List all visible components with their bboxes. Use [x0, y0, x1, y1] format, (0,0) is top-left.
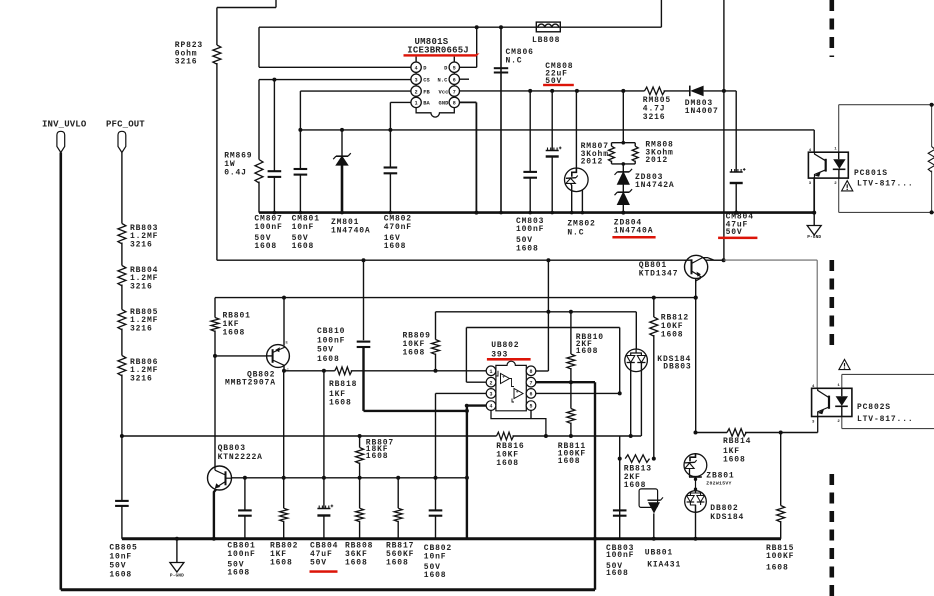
svg-text:1608: 1608 — [386, 559, 409, 568]
svg-text:393: 393 — [491, 350, 508, 359]
svg-text:1608: 1608 — [270, 559, 293, 568]
wire CB802 bottom — [435, 516, 437, 539]
wire opto emitter to bus — [813, 177, 815, 212]
svg-text:3216: 3216 — [130, 325, 153, 334]
transistor QB801 — [685, 255, 708, 278]
svg-text:1608: 1608 — [558, 457, 581, 466]
svg-text:RB818: RB818 — [329, 380, 357, 389]
svg-text:N.C: N.C — [567, 229, 584, 238]
wire QB803 emitter to bus — [214, 490, 216, 539]
svg-text:1N4740A: 1N4740A — [614, 227, 654, 236]
wire divider drop A — [323, 371, 325, 478]
ground P-GND bottom — [176, 539, 178, 563]
wire output heavy line — [536, 381, 595, 383]
svg-text:UB802: UB802 — [491, 341, 519, 350]
svg-text:6: 6 — [453, 77, 456, 83]
inductor LB808 — [536, 22, 560, 32]
wire CB810 branch — [363, 260, 365, 340]
wire GND pin8 to bus — [460, 101, 477, 103]
svg-text:2012: 2012 — [581, 158, 604, 167]
red underline CM804 50V — [718, 237, 757, 240]
wire RB817 top — [397, 478, 399, 508]
capacitor CM806 — [494, 67, 508, 69]
zener ZD803 — [617, 172, 629, 184]
resistor RB810 — [567, 354, 575, 369]
svg-text:P-GND: P-GND — [170, 573, 184, 579]
capacitor CM802 — [384, 166, 398, 168]
wire secondary loop PC802S — [842, 373, 934, 375]
wire QB802 collector — [283, 367, 285, 371]
svg-text:1608: 1608 — [254, 242, 277, 251]
svg-text:100nF: 100nF — [516, 225, 544, 234]
svg-text:3216: 3216 — [130, 241, 153, 250]
svg-text:4: 4 — [415, 65, 418, 71]
svg-text:KDS184: KDS184 — [710, 513, 744, 522]
warning symbol PC801S — [842, 181, 853, 191]
wire feedback line right — [745, 432, 818, 434]
wire PC802S emitter — [817, 417, 819, 433]
resistor RB818 — [335, 367, 352, 375]
svg-text:3216: 3216 — [643, 113, 666, 122]
capacitor CM804 — [730, 171, 743, 173]
svg-text:CS: CS — [423, 77, 430, 83]
resistor RB808 — [356, 508, 364, 521]
wire pin4 heavy drop — [467, 406, 486, 539]
svg-text:FB: FB — [423, 89, 430, 95]
svg-text:N.C: N.C — [437, 77, 448, 83]
svg-text:3216: 3216 — [130, 283, 153, 292]
svg-text:1608: 1608 — [606, 569, 629, 578]
red underline ICE3BR0665J — [404, 54, 477, 56]
zener ZB801 — [684, 454, 707, 477]
svg-text:1608: 1608 — [576, 347, 599, 356]
wire BA line — [388, 128, 392, 132]
red underline CB804 50V — [310, 570, 338, 573]
wire QB801 emitter drop — [695, 278, 697, 432]
svg-text:2: 2 — [415, 89, 418, 95]
wire RB804-RB805 — [121, 285, 123, 310]
warning symbol PC802S — [839, 359, 850, 369]
resistor RM805 — [645, 87, 665, 95]
svg-text:PFC_OUT: PFC_OUT — [106, 120, 145, 130]
svg-text:8: 8 — [529, 369, 532, 375]
capacitor CM808 — [546, 150, 559, 152]
svg-text:UB801: UB801 — [645, 548, 673, 557]
resistor RB807 — [356, 448, 364, 464]
capacitor CB801 — [238, 509, 252, 511]
wire CM803 to bus — [529, 178, 531, 213]
wire CS line — [259, 79, 411, 81]
wire RB807 bottom — [359, 463, 361, 478]
svg-text:10nF: 10nF — [109, 553, 132, 562]
svg-text:1608: 1608 — [317, 355, 340, 364]
wire zener chain from Vcc — [621, 89, 625, 93]
capacitor CB810 — [357, 341, 371, 343]
wire RB815 bottom — [780, 521, 782, 539]
red underline CM808 50V — [543, 84, 574, 86]
svg-text:100nF: 100nF — [606, 551, 634, 560]
wire QB802 base line — [215, 355, 267, 357]
transistor QB802 — [267, 345, 290, 368]
svg-text:CB810: CB810 — [317, 327, 345, 336]
wire RB812 to KIA431 — [653, 335, 655, 459]
wire RB803-RB804 — [121, 243, 123, 266]
resistor RB806 — [118, 356, 126, 376]
wire RB811 top — [570, 382, 572, 408]
svg-text:1608: 1608 — [109, 571, 132, 580]
capacitor CB802 — [429, 509, 443, 511]
wire CM801 branch — [299, 130, 301, 169]
svg-text:3: 3 — [489, 392, 492, 398]
wire CM808 to bus — [551, 157, 553, 213]
svg-text:1: 1 — [415, 101, 418, 107]
wire pin3 drop — [436, 392, 487, 394]
wire RB807 top — [359, 436, 361, 448]
svg-text:DB802: DB802 — [710, 504, 738, 513]
svg-text:50V: 50V — [726, 228, 743, 237]
wire pin4 pin5 tie — [491, 410, 546, 436]
wire bottom border — [61, 588, 595, 591]
svg-text:10nF: 10nF — [424, 553, 447, 562]
wire QB802 emitter — [283, 298, 285, 346]
wire DB803 anode link — [635, 312, 637, 349]
resistor RB805 — [118, 310, 126, 330]
svg-text:1N4742A: 1N4742A — [635, 181, 675, 190]
wire CM807 branch — [272, 78, 276, 82]
wire drain loop top — [259, 26, 661, 28]
svg-text:3: 3 — [415, 77, 418, 83]
wire RB806 to CB805 — [121, 375, 123, 501]
svg-text:KTD1347: KTD1347 — [639, 270, 679, 279]
wire CM804 branch — [735, 91, 737, 172]
svg-text:MMBT2907A: MMBT2907A — [225, 379, 276, 388]
wire CB804 bottom — [323, 516, 325, 539]
svg-text:ZM802: ZM802 — [567, 220, 595, 229]
svg-text:KTN2222A: KTN2222A — [218, 453, 263, 462]
svg-text:1: 1 — [489, 369, 492, 375]
svg-text:1608: 1608 — [723, 455, 746, 464]
wire top-left entry — [275, 0, 277, 8]
svg-text:1608: 1608 — [384, 242, 407, 251]
op-amp U1 body UM801S with pins — [416, 62, 454, 117]
wire divider drop B — [283, 371, 285, 478]
capacitor CB804 — [317, 508, 330, 510]
resistor RB801 — [211, 318, 219, 332]
op-amp U4 shunt regulator UB801 KIA431 — [639, 489, 658, 508]
transistor QB803 — [208, 466, 232, 490]
wire RB809 to input line — [435, 354, 437, 371]
svg-text:1608: 1608 — [366, 452, 389, 461]
svg-text:ZB801: ZB801 — [706, 472, 734, 481]
wire RB805-RB806 — [121, 329, 123, 356]
wire pin8 pull line — [547, 260, 549, 371]
capacitor CM807 — [268, 170, 282, 172]
resistor RB812 — [650, 317, 658, 336]
wire ZM801 branch — [340, 128, 344, 132]
svg-text:470nF: 470nF — [384, 223, 412, 232]
svg-text:10nF: 10nF — [292, 223, 315, 232]
svg-text:2: 2 — [489, 380, 492, 386]
svg-text:3216: 3216 — [130, 375, 153, 384]
svg-text:8: 8 — [453, 101, 456, 107]
resistor RB804 — [118, 266, 126, 286]
wire RM869 to bus — [258, 182, 260, 213]
wire RB811 to line — [570, 423, 572, 437]
wire ZM801 to bus — [341, 165, 344, 212]
wire CB805 to bus — [121, 506, 123, 539]
svg-text:100nF: 100nF — [227, 550, 255, 559]
svg-text:1608: 1608 — [345, 559, 368, 568]
wire comparator input line — [284, 370, 335, 372]
svg-text:4: 4 — [489, 404, 492, 410]
svg-text:1608: 1608 — [227, 569, 250, 578]
wire node rail 297 — [215, 297, 696, 299]
svg-text:LB808: LB808 — [532, 36, 560, 45]
svg-text:ICE3BR0665J: ICE3BR0665J — [407, 46, 469, 56]
svg-text:0.4J: 0.4J — [224, 168, 247, 177]
wire node rail 260 — [217, 259, 724, 261]
zener ZM801 — [336, 156, 348, 165]
svg-text:1608: 1608 — [516, 245, 539, 254]
wire ZD804 to bus — [622, 205, 624, 213]
wire RB802 top — [283, 478, 285, 508]
svg-text:5: 5 — [453, 65, 456, 71]
resistor RP823 — [213, 45, 221, 64]
svg-text:50V: 50V — [109, 562, 126, 571]
svg-text:LTV-817...: LTV-817... — [857, 180, 914, 189]
svg-text:LTV-817...: LTV-817... — [857, 415, 914, 424]
wire CM807 to bus — [273, 177, 275, 213]
svg-text:5: 5 — [529, 404, 532, 410]
wire FB node long line — [300, 129, 814, 131]
svg-text:+: + — [502, 375, 505, 380]
svg-text:50V: 50V — [310, 559, 327, 568]
wire QB801 collector to PC802S — [724, 259, 818, 261]
resistor RB813 — [625, 455, 649, 463]
resistor RM807 RM808 parallel — [612, 142, 636, 144]
svg-text:1N4740A: 1N4740A — [331, 226, 371, 235]
svg-text:1608: 1608 — [766, 564, 789, 573]
wire RB815 top — [780, 433, 782, 506]
resistor RB815 — [777, 506, 785, 523]
svg-text:7: 7 — [453, 89, 456, 95]
svg-text:2012: 2012 — [645, 156, 668, 165]
wire RB817 bottom — [397, 521, 399, 539]
svg-text:PC802S: PC802S — [857, 403, 891, 412]
diode DB802 dual — [694, 488, 697, 491]
wire CM803 branch — [528, 89, 532, 93]
wire CB802 top — [435, 478, 437, 510]
svg-text:BA: BA — [423, 101, 430, 107]
ground P-GND primary right — [813, 213, 815, 226]
capacitor CM803 — [523, 171, 537, 173]
svg-text:1608: 1608 — [661, 330, 684, 339]
svg-text:P-GND: P-GND — [807, 234, 821, 240]
resistor RB809 — [432, 340, 440, 355]
svg-text:N.C: N.C — [506, 56, 523, 65]
svg-text:1608: 1608 — [403, 348, 426, 357]
wire CM808 branch — [550, 89, 554, 93]
wire pin2 loop — [466, 381, 486, 383]
wire Vcc aux vertical — [723, 0, 725, 260]
svg-text:INV_UVLO: INV_UVLO — [42, 120, 87, 130]
svg-text:1608: 1608 — [424, 571, 447, 580]
svg-text:RB814: RB814 — [723, 437, 751, 446]
red underline ZD804 1N4740A — [612, 236, 655, 239]
wire to ZD803 — [622, 164, 624, 172]
wire RB802 bottom — [283, 521, 285, 539]
wire ZM802 branch — [575, 89, 579, 93]
diode DB803 dual — [625, 349, 648, 372]
svg-text:50V: 50V — [317, 346, 334, 355]
wire FB line — [300, 90, 411, 92]
node drain-top junctions — [475, 25, 479, 29]
resistor secondary right — [928, 147, 934, 173]
svg-text:KIA431: KIA431 — [647, 560, 681, 569]
wire RB810 top — [570, 312, 572, 354]
op-amp U3 body UB802 comparator — [496, 361, 526, 411]
capacitor CB805 — [115, 500, 129, 502]
op-amp U2 optocoupler PC801S — [808, 152, 848, 178]
wire page boundary dashed — [829, 0, 834, 57]
wire RB810 to heavy line — [570, 368, 572, 382]
svg-text:1N4007: 1N4007 — [685, 107, 719, 116]
red underline UB802 393 — [487, 358, 531, 361]
svg-text:1608: 1608 — [292, 242, 315, 251]
wire feedback line left — [696, 432, 728, 434]
resistor RB816 — [497, 432, 514, 440]
wire RB808 top — [359, 478, 361, 508]
wire CB810 heavy link — [362, 347, 364, 411]
svg-text:100nF: 100nF — [254, 223, 282, 232]
wire CM806 branch — [500, 27, 502, 212]
capacitor CM801 — [294, 168, 308, 170]
zener ZD804 — [617, 192, 629, 204]
svg-text:PC801S: PC801S — [854, 169, 888, 178]
wire primary ground bus — [259, 211, 814, 214]
transistor ZM802 zener — [565, 168, 589, 192]
svg-text:100KF: 100KF — [766, 552, 794, 561]
resistor RB803 — [118, 224, 126, 244]
wire pin6 feedback drop — [619, 436, 621, 539]
svg-text:1608: 1608 — [329, 399, 352, 408]
svg-text:100nF: 100nF — [317, 336, 345, 345]
wire RB808 bottom — [359, 521, 361, 539]
wire ZD803 to ZD804 — [622, 184, 624, 192]
wire opto collector — [813, 130, 815, 152]
wire CB801 bottom — [244, 516, 246, 539]
wire CB804 top — [323, 478, 325, 508]
svg-text:CB805: CB805 — [109, 543, 137, 552]
svg-text:7: 7 — [529, 380, 532, 386]
svg-text:3216: 3216 — [175, 58, 198, 67]
wire Vcc line — [460, 90, 645, 92]
wire bias top link — [436, 311, 637, 313]
svg-text:+: + — [516, 390, 519, 395]
capacitor CB803 — [613, 509, 627, 511]
wire CM804 to bus — [735, 183, 737, 213]
svg-text:6: 6 — [529, 392, 532, 398]
wire CM801 to bus — [299, 175, 301, 213]
wire secondary loop PC801S — [839, 104, 934, 106]
wire secondary ground bus — [122, 537, 781, 540]
wire pin6 N.C stub — [460, 78, 469, 80]
op-amp U5 optocoupler PC802S — [812, 388, 852, 416]
resistor RB817 — [394, 508, 402, 521]
svg-text:Vcc: Vcc — [438, 89, 448, 95]
wire RB812 top — [653, 298, 655, 317]
wire CB801 top — [244, 478, 246, 510]
svg-text:1608: 1608 — [223, 328, 246, 337]
svg-text:DB803: DB803 — [663, 363, 691, 372]
resistor RB811 — [567, 409, 575, 424]
svg-text:1608: 1608 — [496, 459, 519, 468]
wire CM802 to bus — [389, 173, 391, 212]
svg-text:GND: GND — [438, 101, 449, 107]
wire CM802 branch — [389, 130, 391, 167]
wire RP823 to node rail — [216, 63, 218, 260]
wire pin6 line — [536, 392, 620, 394]
resistor RB814 — [727, 429, 746, 437]
diode DM803 — [690, 86, 703, 97]
wire PFC sense line — [122, 435, 497, 437]
resistor RM869 — [255, 160, 263, 183]
svg-text:Z02W15VY: Z02W15VY — [706, 481, 731, 487]
wire RB801 to QB803 base — [214, 331, 216, 467]
wire QB803 collector rail — [231, 477, 467, 479]
resistor RB802 — [280, 508, 288, 521]
